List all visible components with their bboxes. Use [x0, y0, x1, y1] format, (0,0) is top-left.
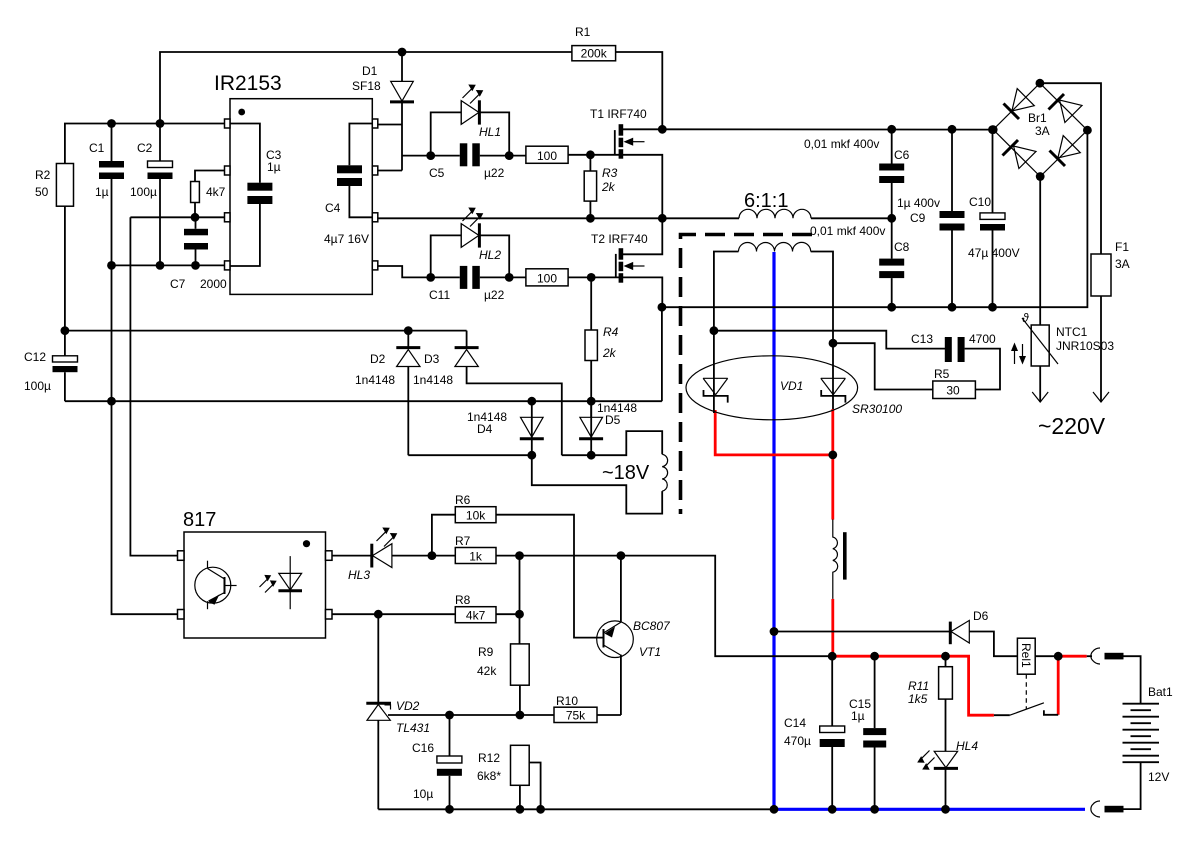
svg-text:50: 50 — [35, 185, 49, 199]
capacitor C12 electrolytic — [24, 331, 78, 402]
wire VCC top loop to R1 — [160, 52, 572, 124]
junction (713.9,330.7) — [710, 326, 719, 335]
IC U1 IR2153 body — [214, 72, 372, 294]
svg-text:3A: 3A — [1035, 124, 1050, 138]
transistor T1 IRF740 — [590, 107, 662, 159]
wire R2 top to VCC rail to IC pin1 — [65, 124, 225, 164]
svg-text:10k: 10k — [466, 509, 486, 523]
red wire relay node to battery plus clip — [1058, 655, 1087, 658]
LED HL3 — [332, 528, 455, 583]
opto pin top-right — [326, 551, 333, 561]
junction (509.2,155.6) — [505, 151, 514, 160]
bridge diode top-right — [1049, 94, 1083, 123]
red wire relay node down to switch contact — [1057, 656, 1060, 715]
junction (449.5,809.3) — [445, 805, 454, 814]
LED HL1 with C5 bypass — [431, 85, 510, 156]
svg-text:817: 817 — [183, 509, 216, 531]
svg-text:1n4148: 1n4148 — [413, 373, 453, 387]
LED HL2 with C11 bypass — [431, 208, 510, 278]
junction (774,809.3) — [770, 805, 779, 814]
resistor R12 trimmer — [477, 745, 541, 809]
resistor R7 — [455, 534, 496, 564]
svg-text:T1 IRF740: T1 IRF740 — [590, 107, 647, 121]
junction (1040.2,176.5) — [1036, 172, 1045, 181]
junction (891.7,129.3) — [887, 125, 896, 134]
junction (832.8,454.9) — [828, 451, 837, 460]
capacitor C7 — [170, 217, 227, 291]
capacitor C15 — [849, 656, 886, 809]
svg-text:C10: C10 — [969, 195, 991, 209]
ref wire from VD2 to R10 — [388, 714, 554, 716]
wire R9 bottom to ref node — [519, 685, 521, 715]
aux dc wire y401 — [65, 400, 662, 402]
blue center-tap wire from transformer to battery minus — [774, 252, 1085, 809]
opto pin top-left — [178, 551, 185, 561]
junction (111.5,265.4) — [107, 261, 116, 270]
svg-text:30: 30 — [946, 384, 960, 398]
svg-text:R2: R2 — [35, 168, 51, 182]
battery bottom wire — [1124, 762, 1141, 809]
transformer primary winding — [739, 209, 811, 218]
top rail T1 drain to bridge left corner — [662, 128, 993, 130]
red wire from choke bottom to output plus rail — [831, 599, 834, 656]
junction (160,265.4) — [156, 261, 165, 270]
bottom ground rail black part — [378, 808, 774, 810]
LED HL4 — [917, 739, 978, 809]
IC pin 5 — [372, 261, 378, 270]
relay coil Rel1 — [1017, 638, 1058, 709]
junction (662.3,218.3) — [658, 214, 667, 223]
svg-text:D4: D4 — [477, 422, 493, 436]
svg-text:4µ7 16V: 4µ7 16V — [324, 232, 369, 246]
IC pin 2 — [225, 166, 231, 175]
svg-text:VD1: VD1 — [780, 379, 803, 393]
wire ground rail under C1 C2 C7 to IC pin4 — [112, 264, 225, 266]
junction (378.3,614.2) — [374, 610, 383, 619]
svg-text:~18V: ~18V — [602, 462, 650, 484]
wire gate row T1 to source node — [568, 155, 662, 219]
junction (591.2,401.2) — [587, 397, 596, 406]
wire C12 node row — [65, 330, 467, 332]
svg-text:4700: 4700 — [969, 332, 996, 346]
svg-text:4k7: 4k7 — [206, 185, 226, 199]
wire D5 node to aux winding top — [562, 431, 662, 455]
junction (833,343.2) — [829, 339, 838, 348]
svg-text:F1: F1 — [1115, 240, 1129, 254]
svg-text:R9: R9 — [478, 645, 494, 659]
resistor 100 (gate T1) — [526, 146, 568, 163]
junction (874.6,656.2) — [870, 652, 879, 661]
battery clip plus — [1087, 648, 1141, 704]
svg-text:2k: 2k — [601, 180, 616, 194]
junction (430.7,155.6) — [426, 151, 435, 160]
junction (620.9,555.6) — [617, 551, 626, 560]
junction (519.5,555.6) — [515, 551, 524, 560]
junction (1087.4,130.2) — [1083, 126, 1092, 135]
battery clip minus — [1091, 801, 1124, 817]
junction (1058.2,656.2) — [1054, 652, 1063, 661]
svg-text:SR30100: SR30100 — [852, 402, 902, 416]
svg-text:C14: C14 — [784, 716, 806, 730]
svg-text:C13: C13 — [911, 332, 933, 346]
svg-text:12V: 12V — [1148, 770, 1169, 784]
shunt VD2 TL431 — [366, 614, 430, 809]
svg-text:D6: D6 — [973, 609, 989, 623]
mid rail T1 source to transformer primary — [378, 217, 739, 219]
bridge diode bottom-right — [1050, 136, 1081, 166]
svg-text:75k: 75k — [566, 709, 586, 723]
red wire from VD1 right diode anode down — [831, 409, 834, 520]
capacitor C1 — [89, 124, 124, 266]
thermistor NTC1 — [1022, 311, 1114, 366]
wire pin3 horizontal — [130, 216, 224, 218]
junction (111.5,401.2) — [107, 397, 116, 406]
junction (590.4,154.8) — [586, 150, 595, 159]
red output plus rail to switch — [832, 656, 994, 715]
opto pin bottom-left — [178, 610, 185, 620]
junction (431.9,555.6) — [428, 551, 437, 560]
resistor 4k7 at IC pin2 — [191, 171, 226, 218]
svg-text:100µ: 100µ — [24, 379, 51, 393]
svg-text:D2: D2 — [370, 352, 386, 366]
resistor R5 — [933, 367, 976, 399]
junction (591.2,277.4) — [587, 273, 596, 282]
svg-text:D1: D1 — [362, 64, 378, 78]
svg-text:HL4: HL4 — [956, 739, 978, 753]
svg-text:4k7: 4k7 — [466, 609, 486, 623]
junction (531.8,401.2) — [527, 397, 536, 406]
diode D3 1n4148 — [413, 331, 562, 456]
IC pin 4 — [225, 261, 231, 270]
capacitor C10 electrolytic — [968, 129, 1020, 307]
svg-text:1n4148: 1n4148 — [355, 373, 395, 387]
wire bridge bottom corner to NTC — [1039, 177, 1041, 326]
junction (774,631.5) — [770, 627, 779, 636]
svg-text:3A: 3A — [1115, 257, 1130, 271]
svg-text:D5: D5 — [605, 413, 621, 427]
junction (945.5,656.2) — [941, 652, 950, 661]
wire bridge top corner to fuse — [1040, 83, 1101, 254]
junction (891.7,218.3) — [887, 214, 896, 223]
junction (540.6,809.3) — [536, 805, 545, 814]
resistor R9 — [477, 644, 529, 685]
junction (591.2,455.2) — [587, 451, 596, 460]
svg-text:SF18: SF18 — [352, 79, 381, 93]
svg-text:1k5: 1k5 — [908, 692, 928, 706]
svg-text:470µ: 470µ — [784, 734, 811, 748]
svg-text:42k: 42k — [477, 664, 497, 678]
svg-text:6k8*: 6k8* — [477, 769, 501, 783]
wire R1 right to T1 drain node — [616, 52, 663, 129]
svg-text:1µ: 1µ — [851, 709, 865, 723]
wire jog up to HL1/C5 node — [402, 155, 431, 157]
IC pin 1 — [225, 119, 231, 128]
junction (430.7,277.4) — [426, 273, 435, 282]
svg-text:1µ 400v: 1µ 400v — [897, 196, 940, 210]
svg-text:D3: D3 — [424, 352, 440, 366]
svg-text:0,01 mkf 400v: 0,01 mkf 400v — [804, 137, 879, 151]
resistor R2 — [35, 164, 74, 207]
svg-text:R8: R8 — [455, 593, 471, 607]
junction (195,217.3) — [191, 213, 200, 222]
svg-text:R6: R6 — [455, 493, 471, 507]
VD1 dual schottky right diode — [821, 378, 846, 402]
svg-text:R4: R4 — [603, 325, 619, 339]
mains arrow right — [1093, 392, 1109, 402]
svg-text:C5: C5 — [429, 166, 445, 180]
svg-text:NTC1: NTC1 — [1056, 325, 1088, 339]
wire D2 anode to D4 node — [408, 454, 532, 456]
IC pin 3 — [225, 213, 231, 222]
wire opto bottom to R8 — [332, 613, 455, 615]
opto phototransistor — [195, 561, 237, 610]
svg-text:R12: R12 — [478, 751, 500, 765]
diode D6 — [950, 609, 1017, 656]
IC pin 7 — [372, 166, 378, 175]
svg-text:1µ: 1µ — [267, 160, 281, 174]
junction (993.2,129.6) — [989, 125, 998, 134]
diode D1 SF18 — [352, 52, 414, 171]
svg-text:HL2: HL2 — [479, 248, 501, 262]
junction (111.5,123.5) — [107, 119, 116, 128]
wire R8 right node — [496, 613, 520, 615]
IC pin 8 — [372, 119, 378, 128]
junction (952,307.2) — [948, 303, 957, 312]
wire C13 to R5 — [965, 349, 1000, 390]
junction (992.5,307.2) — [988, 303, 997, 312]
svg-text:ϑ: ϑ — [1022, 311, 1029, 325]
snubber wire from left cathode to C13 — [714, 331, 946, 349]
svg-text:IR2153: IR2153 — [214, 72, 282, 95]
resistor R3 — [584, 155, 617, 219]
wire IC pin7 to gate drive node — [378, 170, 402, 172]
junction (1039.9,83.2) — [1036, 79, 1045, 88]
svg-text:R11: R11 — [908, 679, 929, 693]
svg-text:C1: C1 — [89, 141, 105, 155]
junction (519.5,614.2) — [515, 610, 524, 619]
junction (64.9,330.6) — [61, 326, 70, 335]
VD1 package ellipse — [686, 356, 858, 420]
aux winding ~18V — [602, 454, 668, 491]
junction (945.5,809.3) — [941, 805, 950, 814]
capacitor C14 electrolytic — [784, 656, 845, 809]
battery Bat1 — [1123, 685, 1174, 784]
wire R7 node down through R8 node to R9 — [519, 556, 521, 644]
svg-text:C11: C11 — [429, 288, 450, 302]
junction (531.8,455.2) — [527, 451, 536, 460]
svg-text:Bat1: Bat1 — [1148, 685, 1173, 699]
resistor R6 — [432, 493, 496, 556]
wire D6 row from blue tap — [774, 631, 950, 633]
svg-text:100: 100 — [537, 272, 557, 286]
svg-text:JNR10S03: JNR10S03 — [1056, 339, 1114, 353]
resistor 100 (gate T2) — [526, 269, 568, 286]
transistor VT1 BC807 — [597, 556, 671, 715]
junction (891.7,307.2) — [887, 303, 896, 312]
capacitor C6 — [804, 129, 910, 218]
resistor R10 — [554, 694, 597, 723]
capacitor C9 — [897, 129, 965, 307]
diode D4 1n4148 — [467, 401, 544, 455]
svg-text:6:1:1: 6:1:1 — [744, 190, 788, 212]
wire NTC to mains arrow — [1039, 366, 1041, 402]
junction (662.3,129.3) — [658, 125, 667, 134]
svg-text:TL431: TL431 — [396, 721, 430, 735]
svg-text:C6: C6 — [894, 148, 910, 162]
wire R6 right to VT1 base — [496, 515, 603, 638]
svg-text:~220V: ~220V — [1038, 413, 1106, 439]
wire IC pin5 to HL2/C11 node — [378, 266, 430, 277]
svg-text:2k: 2k — [602, 346, 617, 360]
resistor R1 — [572, 25, 616, 61]
junction (952,129.3) — [948, 125, 957, 134]
opto pin bottom-right — [326, 610, 333, 620]
junction (992.5,129.6) — [988, 125, 997, 134]
junction (832.2,809.3) — [828, 805, 837, 814]
svg-text:VD2: VD2 — [396, 699, 420, 713]
capacitor C2 electrolytic — [130, 124, 173, 266]
svg-text:C12: C12 — [24, 350, 46, 364]
diode D5 1n4148 — [579, 401, 637, 455]
svg-text:VT1: VT1 — [639, 645, 661, 659]
transformer core dashed lines — [681, 235, 813, 515]
capacitor C4 inside IC — [324, 124, 372, 247]
svg-text:R5: R5 — [934, 367, 950, 381]
NTC current arrows — [1011, 343, 1026, 365]
svg-text:100µ: 100µ — [130, 185, 157, 199]
bottom rail from T2 source across caps to bridge — [662, 130, 1088, 307]
svg-text:C8: C8 — [894, 240, 910, 254]
wire primary to C6/C8 node — [811, 217, 892, 219]
capacitor C16 electrolytic — [412, 715, 462, 809]
switch contact — [994, 703, 1058, 715]
mains arrow left — [1032, 392, 1048, 402]
junction (519.9,809.3) — [516, 805, 525, 814]
svg-text:200k: 200k — [581, 47, 608, 61]
junction (661.9,307.2) — [658, 303, 667, 312]
svg-text:1k: 1k — [469, 549, 483, 563]
red wire from VD1 left diode anode to output node — [715, 410, 833, 455]
capacitor C8 — [810, 218, 910, 307]
svg-text:T2 IRF740: T2 IRF740 — [591, 232, 648, 246]
svg-text:C2: C2 — [137, 141, 153, 155]
wire R10 right up to VT1 collector — [597, 714, 621, 716]
resistor R11 — [908, 656, 952, 751]
opto LED — [260, 556, 303, 609]
junction (195.5,265.4) — [191, 261, 200, 270]
wire D4 node to aux winding bottom — [532, 455, 662, 513]
junction (408.3,330.6) — [404, 326, 413, 335]
wire gate row T2 to source node — [568, 277, 662, 307]
svg-text:10µ: 10µ — [413, 787, 433, 801]
fuse F1 — [1091, 240, 1130, 296]
capacitor C5 — [429, 143, 526, 180]
svg-text:C7: C7 — [170, 277, 186, 291]
svg-text:C9: C9 — [910, 211, 926, 225]
svg-text:C16: C16 — [412, 741, 434, 755]
bridge diode bottom-left — [1003, 140, 1037, 169]
junction (509.2,277.4) — [505, 273, 514, 282]
svg-text:2000: 2000 — [200, 277, 227, 291]
junction (590.4,218.3) — [586, 214, 595, 223]
wire R5 to right cathode — [833, 343, 933, 389]
optocoupler U2 817 — [183, 509, 326, 638]
capacitor C3 inside IC — [230, 124, 282, 267]
wire pin3 node branch down to optocoupler pin — [130, 217, 177, 555]
capacitor C11 — [429, 266, 526, 302]
output choke — [833, 519, 847, 599]
wire IC pin8 to D1 line — [378, 124, 402, 126]
transistor T2 IRF740 — [591, 218, 662, 282]
junction (832.2,656.2) — [828, 652, 837, 661]
svg-text:R7: R7 — [455, 534, 471, 548]
junction (449.5,715) — [445, 711, 454, 720]
svg-text:R1: R1 — [575, 25, 591, 39]
svg-text:BC807: BC807 — [633, 619, 671, 633]
resistor R4 — [585, 277, 619, 417]
wire R7 right along sense line — [496, 556, 832, 657]
wire R2 bottom to node — [64, 206, 66, 330]
svg-text:R10: R10 — [556, 694, 578, 708]
VD1 dual schottky SR30100 left diode — [703, 378, 728, 402]
svg-text:HL1: HL1 — [479, 125, 501, 139]
svg-text:1µ: 1µ — [95, 185, 109, 199]
svg-text:100: 100 — [537, 149, 557, 163]
diode D2 1n4148 — [355, 331, 420, 456]
svg-text:Rel1: Rel1 — [1019, 643, 1033, 668]
wire T2 source node down to aux wire — [661, 307, 663, 401]
svg-text:47µ 400V: 47µ 400V — [968, 246, 1020, 260]
svg-text:C4: C4 — [325, 201, 341, 215]
svg-text:0,01 mkf 400v: 0,01 mkf 400v — [810, 224, 885, 238]
wire fuse to mains arrow — [1100, 296, 1102, 402]
junction (519.9,715) — [516, 711, 525, 720]
junction (160,123.5) — [156, 119, 165, 128]
IC pin 6 — [372, 213, 378, 222]
svg-text:HL3: HL3 — [348, 568, 370, 582]
wire C1 branch down to optocoupler pin — [112, 265, 178, 614]
capacitor C13 — [911, 332, 996, 362]
resistor R8 — [455, 593, 496, 623]
junction (402,52) — [398, 48, 407, 57]
svg-text:µ22: µ22 — [484, 166, 505, 180]
bridge rectifier Br1 — [993, 83, 1087, 176]
junction (874.6,809.3) — [870, 805, 879, 814]
svg-text:Br1: Br1 — [1028, 111, 1047, 125]
transformer secondary winding — [714, 242, 833, 413]
svg-text:µ22: µ22 — [484, 288, 505, 302]
svg-text:R3: R3 — [602, 166, 618, 180]
bridge diode top-left — [1004, 89, 1035, 119]
